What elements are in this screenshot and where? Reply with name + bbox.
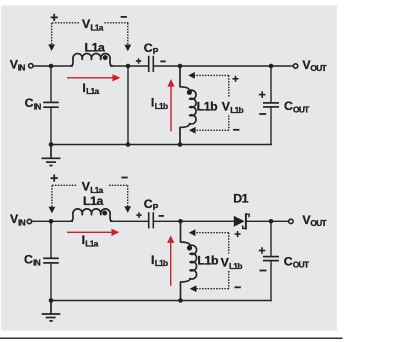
COUT plus sign [259, 91, 266, 98]
node dot VIN junction (bottom) [49, 219, 54, 224]
terminal VIN [29, 64, 33, 68]
L1a phase dot [103, 55, 108, 60]
terminal VIN (bottom) [27, 219, 31, 223]
wire VIN to L1a (bottom) [32, 220, 73, 222]
node dot VOUT junction [269, 64, 274, 69]
label VL1b [222, 99, 244, 115]
svg-text:L1a: L1a [83, 194, 104, 208]
inductor L1b (bottom) [181, 221, 197, 300]
label CIN [25, 96, 42, 111]
svg-text:L1b: L1b [197, 99, 218, 113]
CP minus sign [160, 60, 165, 62]
ground (bottom) [42, 301, 61, 321]
label CIN (bottom) [24, 252, 41, 267]
rail node dot switch [126, 142, 131, 147]
node VIN label (bottom) [10, 212, 26, 227]
current arrow IL1b (bottom) [167, 235, 174, 285]
capacitor COUT plates (bottom) [263, 257, 279, 261]
svg-text:L1b: L1b [155, 258, 168, 268]
annotation VL1b dashed arrows (bottom) [195, 233, 229, 289]
annotation VL1b arrowheads (bottom) [189, 229, 197, 292]
svg-text:D1: D1 [233, 191, 248, 205]
svg-text:C: C [25, 96, 34, 110]
node dot VIN junction [49, 64, 54, 69]
gray figure panel [1, 6, 337, 331]
label CP (bottom) [144, 197, 159, 212]
svg-text:L1b: L1b [230, 105, 243, 115]
CP minus sign (bottom) [159, 215, 164, 217]
label COUT (bottom) [284, 255, 310, 270]
node dot junction L1a-CP-switch [126, 64, 131, 69]
ground rail (bottom) [51, 300, 272, 302]
svg-text:IN: IN [34, 101, 42, 111]
inductor L1a [70, 54, 112, 66]
label VOUT [302, 58, 327, 73]
rail node dot left [49, 142, 54, 147]
label COUT [284, 99, 310, 114]
svg-text:L1a: L1a [86, 86, 99, 96]
node dot CP-L1b junction [178, 64, 183, 69]
inductor L1b [180, 66, 196, 145]
current arrow IL1a [67, 74, 120, 81]
svg-text:C: C [284, 99, 293, 113]
svg-text:I: I [82, 233, 85, 247]
CP plus sign (bottom) [136, 212, 141, 217]
diode D1 [234, 213, 249, 229]
svg-text:IN: IN [33, 258, 41, 268]
rail node dot L1b (bottom) [178, 298, 183, 303]
label IL1b [151, 96, 168, 111]
wire CP to diode (bottom) [154, 220, 234, 222]
label IL1a (bottom) [82, 233, 99, 248]
L1b phase dot [187, 90, 192, 95]
terminal VOUT [293, 64, 297, 68]
label VL1a (bottom) [82, 180, 104, 195]
label CP [144, 41, 159, 56]
svg-text:I: I [151, 253, 154, 267]
wire diode to VOUT (bottom) [246, 220, 289, 222]
svg-text:L1a: L1a [90, 22, 103, 32]
capacitor CP plates [149, 56, 154, 72]
capacitor CP plates (bottom) [149, 212, 154, 228]
annotation VL1a arrowheads [48, 44, 131, 51]
capacitor CIN plates (bottom) [43, 258, 59, 263]
L1b phase dot (bottom) [187, 245, 192, 250]
terminal VOUT (bottom) [289, 219, 293, 223]
node dot VOUT junction (bottom) [269, 219, 274, 224]
svg-text:C: C [144, 197, 153, 211]
label VOUT (bottom) [302, 213, 327, 228]
current arrow IL1b [167, 79, 174, 132]
capacitor CIN branch wire (bottom) [50, 221, 52, 257]
current arrow IL1a (bottom) [67, 229, 119, 236]
annotation VL1a minus (bottom) [121, 177, 127, 179]
capacitor CIN plates [43, 102, 59, 107]
svg-text:OUT: OUT [310, 63, 327, 73]
ground rail [51, 144, 272, 146]
label VL1b (bottom) [221, 255, 243, 271]
CP plus sign [136, 58, 141, 63]
annotation VL1b plus [233, 76, 239, 82]
annotation VL1a bracket plus [51, 14, 58, 21]
label IL1a [82, 81, 99, 96]
capacitor CIN branch wire [50, 66, 52, 102]
COUT plus sign (bottom) [259, 247, 266, 254]
svg-text:C: C [24, 252, 33, 266]
annotation VL1b dashed arrows [195, 75, 229, 130]
svg-text:OUT: OUT [293, 104, 310, 114]
rail node dot left (bottom) [49, 298, 54, 303]
svg-text:L1b: L1b [155, 101, 168, 111]
inductor L1a (bottom) [70, 209, 112, 221]
svg-text:L1a: L1a [85, 239, 98, 249]
annotation VL1b minus [233, 129, 239, 131]
svg-text:I: I [82, 81, 85, 95]
capacitor COUT branch wire (bottom) [270, 221, 272, 256]
node dot CP-L1b junction (bottom) [178, 219, 183, 224]
label IL1b (bottom) [151, 253, 168, 268]
bottom rule [0, 337, 343, 339]
svg-text:OUT: OUT [310, 218, 327, 228]
annotation VL1b plus (bottom) [235, 231, 241, 237]
annotation VL1a dashed lines (bottom) [52, 185, 128, 207]
annotation VL1a minus [121, 16, 127, 18]
rail node dot L1b [178, 142, 183, 147]
annotation VL1b minus (bottom) [235, 286, 241, 288]
svg-text:I: I [151, 96, 154, 110]
COUT minus sign [259, 113, 266, 115]
wire CP to VOUT [154, 65, 294, 67]
svg-text:C: C [144, 41, 153, 55]
capacitor COUT branch wire [270, 66, 272, 102]
svg-text:L1a: L1a [85, 41, 106, 55]
svg-text:L1b: L1b [197, 254, 218, 268]
svg-text:IN: IN [18, 62, 26, 72]
wire VIN to L1a [33, 65, 73, 67]
node VIN label [10, 57, 26, 72]
capacitor COUT plates [263, 103, 279, 107]
COUT minus sign (bottom) [260, 270, 267, 272]
annotation VL1a dashed lines [52, 23, 129, 45]
annotation VL1b arrowheads [188, 72, 195, 134]
svg-text:IN: IN [18, 217, 26, 227]
annotation VL1a arrowheads (bottom) [49, 206, 132, 213]
ground [42, 145, 61, 166]
wire switch branch (closed switch) [127, 66, 129, 145]
L1a phase dot (bottom) [102, 211, 107, 216]
svg-text:C: C [284, 255, 293, 269]
svg-text:OUT: OUT [293, 260, 310, 270]
annotation VL1a bracket plus (bottom) [51, 175, 58, 182]
wire L1a to CP (bottom) [110, 220, 148, 222]
svg-text:L1a: L1a [90, 185, 103, 195]
wire L1a to CP [110, 65, 148, 67]
label VL1a [82, 17, 104, 32]
svg-text:L1b: L1b [229, 261, 242, 271]
